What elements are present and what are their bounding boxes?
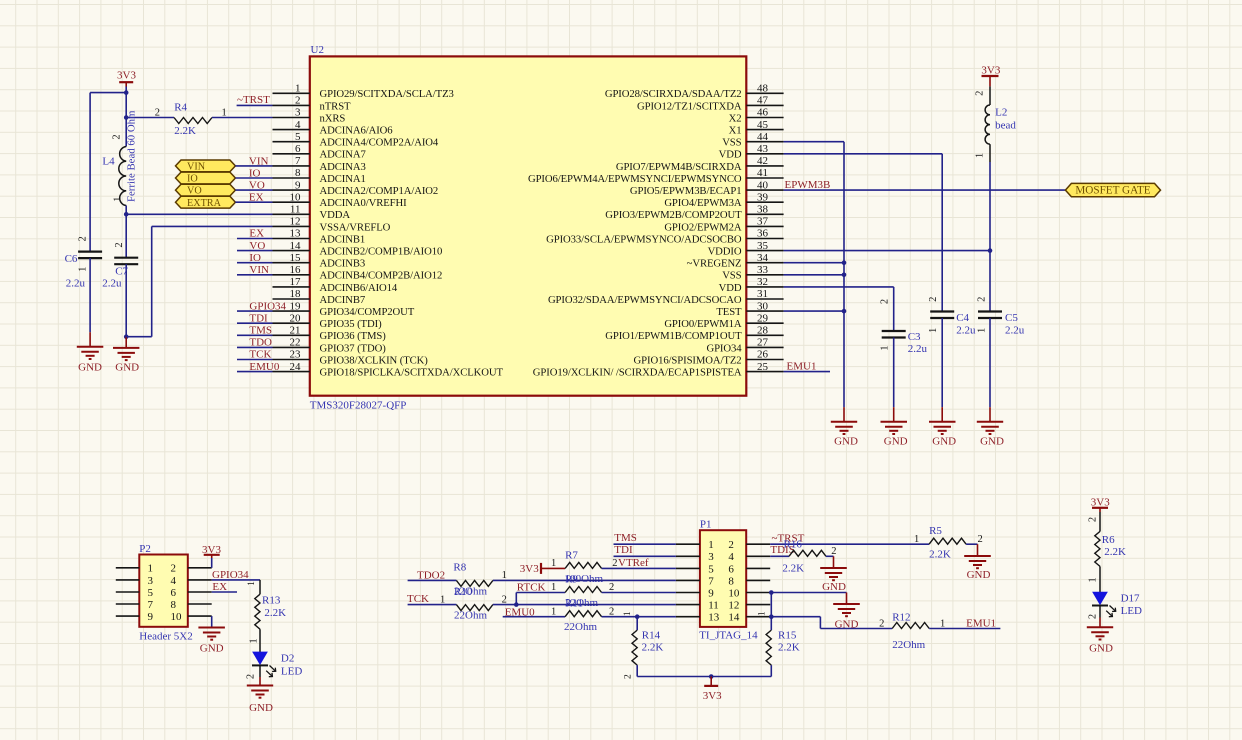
svg-text:1: 1 [551, 558, 556, 569]
svg-text:13: 13 [708, 612, 720, 624]
svg-text:2.2K: 2.2K [642, 642, 664, 654]
svg-text:bead: bead [995, 120, 1016, 132]
svg-text:ADCINB4/COMP2B/AIO12: ADCINB4/COMP2B/AIO12 [320, 270, 443, 282]
svg-text:43: 43 [757, 143, 769, 155]
svg-text:GPIO2/EPWM2A: GPIO2/EPWM2A [664, 221, 742, 233]
svg-text:13: 13 [290, 228, 302, 240]
svg-text:2: 2 [928, 297, 939, 302]
svg-text:10: 10 [728, 587, 740, 599]
svg-text:VIN: VIN [187, 162, 206, 173]
svg-text:15: 15 [290, 252, 302, 264]
svg-text:GND: GND [834, 436, 858, 448]
svg-text:1: 1 [914, 534, 919, 545]
svg-text:GND: GND [1089, 643, 1113, 655]
svg-text:EMU1: EMU1 [787, 361, 817, 373]
svg-text:GPIO1/EPWM1B/COMP1OUT: GPIO1/EPWM1B/COMP1OUT [605, 330, 742, 342]
svg-text:3V3: 3V3 [117, 70, 136, 82]
svg-text:39: 39 [757, 191, 769, 203]
svg-text:2: 2 [155, 107, 160, 118]
svg-text:X1: X1 [729, 125, 742, 137]
svg-text:GND: GND [932, 436, 956, 448]
svg-text:GPIO7/EPWM4B/SCIRXDA: GPIO7/EPWM4B/SCIRXDA [616, 161, 742, 173]
svg-text:GPIO18/SPICLKA/SCITXDA/XCLKOUT: GPIO18/SPICLKA/SCITXDA/XCLKOUT [320, 367, 504, 379]
svg-text:GPIO34: GPIO34 [706, 342, 742, 354]
svg-text:~TRST: ~TRST [237, 94, 270, 106]
svg-text:18: 18 [290, 288, 302, 300]
svg-text:TMS: TMS [614, 532, 637, 544]
svg-text:1: 1 [757, 611, 767, 616]
svg-text:R11: R11 [565, 597, 583, 609]
svg-text:ADCINB2/COMP1B/AIO10: ADCINB2/COMP1B/AIO10 [320, 246, 443, 258]
svg-text:VIN: VIN [249, 155, 269, 167]
svg-text:TI_JTAG_14: TI_JTAG_14 [699, 630, 758, 642]
svg-text:1: 1 [976, 328, 987, 333]
svg-text:MOSFET GATE: MOSFET GATE [1075, 185, 1150, 197]
svg-text:R9: R9 [565, 573, 578, 585]
svg-text:3V3: 3V3 [202, 544, 221, 556]
svg-text:46: 46 [757, 107, 769, 119]
svg-text:1: 1 [1088, 577, 1099, 582]
svg-text:12: 12 [728, 600, 739, 612]
svg-text:22Ohm: 22Ohm [564, 621, 597, 633]
svg-text:3V3: 3V3 [981, 65, 1000, 77]
svg-text:ADCINB3: ADCINB3 [320, 258, 366, 270]
svg-text:GPIO33/SCLA/EPWMSYNCO/ADCSOCBO: GPIO33/SCLA/EPWMSYNCO/ADCSOCBO [546, 233, 742, 245]
svg-text:D2: D2 [281, 653, 294, 665]
svg-text:2: 2 [609, 606, 614, 617]
svg-text:GPIO36 (TMS): GPIO36 (TMS) [320, 330, 387, 342]
svg-text:35: 35 [757, 240, 769, 252]
svg-text:ADCINA4/COMP2A/AIO4: ADCINA4/COMP2A/AIO4 [320, 137, 439, 149]
svg-text:R10: R10 [454, 586, 473, 598]
svg-text:1: 1 [928, 328, 939, 333]
svg-text:LED: LED [1121, 605, 1142, 617]
svg-text:8: 8 [728, 575, 734, 587]
svg-text:GPIO12/TZ1/SCITXDA: GPIO12/TZ1/SCITXDA [637, 100, 742, 112]
svg-text:ADCINA2/COMP1A/AIO2: ADCINA2/COMP1A/AIO2 [320, 185, 439, 197]
svg-text:TMS320F28027-QFP: TMS320F28027-QFP [310, 400, 407, 412]
svg-text:GPIO34: GPIO34 [212, 569, 249, 581]
svg-text:ADCINB7: ADCINB7 [320, 294, 366, 306]
svg-text:8: 8 [171, 599, 177, 611]
svg-text:1: 1 [551, 606, 556, 617]
svg-text:1: 1 [708, 539, 714, 551]
svg-text:29: 29 [757, 312, 769, 324]
svg-text:GND: GND [78, 362, 102, 374]
svg-text:C6: C6 [65, 253, 78, 265]
svg-text:4: 4 [295, 119, 301, 131]
svg-text:24: 24 [290, 361, 302, 373]
svg-text:nXRS: nXRS [320, 112, 346, 124]
svg-text:2: 2 [114, 242, 125, 247]
svg-text:19: 19 [290, 300, 302, 312]
svg-text:2.2K: 2.2K [174, 125, 196, 137]
svg-text:1: 1 [112, 197, 123, 202]
svg-text:2: 2 [976, 297, 987, 302]
svg-text:GND: GND [115, 362, 139, 374]
svg-text:GPIO5/EPWM3B/ECAP1: GPIO5/EPWM3B/ECAP1 [630, 185, 742, 197]
svg-text:36: 36 [757, 228, 769, 240]
svg-text:9: 9 [148, 611, 154, 623]
svg-text:1: 1 [77, 267, 88, 272]
svg-text:1: 1 [940, 619, 945, 630]
svg-text:38: 38 [757, 204, 769, 216]
svg-text:2.2u: 2.2u [66, 278, 86, 290]
svg-text:21: 21 [290, 325, 301, 337]
svg-text:GND: GND [980, 436, 1004, 448]
svg-text:GPIO35 (TDI): GPIO35 (TDI) [320, 318, 383, 330]
svg-text:2: 2 [112, 134, 123, 139]
svg-text:2: 2 [831, 546, 836, 557]
svg-text:GPIO29/SCITXDA/SCLA/TZ3: GPIO29/SCITXDA/SCLA/TZ3 [320, 88, 454, 100]
svg-text:11: 11 [708, 600, 719, 612]
svg-text:22: 22 [290, 337, 301, 349]
svg-text:nTRST: nTRST [320, 100, 352, 112]
svg-text:Header 5X2: Header 5X2 [139, 631, 192, 643]
svg-text:33: 33 [757, 264, 769, 276]
svg-text:GPIO16/SPISIMOA/TZ2: GPIO16/SPISIMOA/TZ2 [634, 354, 742, 366]
svg-text:C4: C4 [956, 312, 969, 324]
svg-text:2: 2 [975, 91, 986, 96]
svg-text:2: 2 [624, 674, 634, 679]
svg-text:2.2u: 2.2u [1005, 325, 1025, 337]
svg-text:GPIO32/SDAA/EPWMSYNCI/ADCSOCAO: GPIO32/SDAA/EPWMSYNCI/ADCSOCAO [548, 294, 742, 306]
svg-text:VSSA/VREFLO: VSSA/VREFLO [320, 221, 391, 233]
svg-text:TCK: TCK [407, 593, 429, 605]
svg-text:EMU0: EMU0 [505, 606, 535, 618]
svg-text:ADCINB1: ADCINB1 [320, 233, 366, 245]
svg-text:EX: EX [249, 192, 264, 204]
svg-text:1: 1 [440, 594, 445, 605]
svg-text:10: 10 [171, 611, 183, 623]
svg-text:R13: R13 [262, 595, 281, 607]
svg-text:2.2K: 2.2K [782, 563, 804, 575]
svg-text:IO: IO [249, 167, 261, 179]
svg-text:5: 5 [295, 131, 301, 143]
svg-text:ADCINA6/AIO6: ADCINA6/AIO6 [320, 125, 394, 137]
svg-text:27: 27 [757, 337, 769, 349]
svg-text:EMU0: EMU0 [249, 361, 279, 373]
svg-text:14: 14 [728, 612, 740, 624]
svg-text:25: 25 [757, 361, 769, 373]
svg-text:3: 3 [708, 551, 714, 563]
svg-text:R15: R15 [778, 629, 797, 641]
svg-text:48: 48 [757, 83, 769, 95]
svg-text:VDDIO: VDDIO [708, 246, 742, 258]
svg-text:GND: GND [967, 569, 991, 581]
svg-text:EMU1: EMU1 [966, 617, 996, 629]
svg-text:2.2K: 2.2K [1104, 546, 1126, 558]
svg-text:C7: C7 [115, 266, 128, 278]
svg-text:2.2K: 2.2K [778, 642, 800, 654]
svg-text:VO: VO [249, 180, 265, 192]
svg-text:3V3: 3V3 [520, 563, 539, 575]
svg-text:5: 5 [148, 587, 154, 599]
svg-text:1: 1 [880, 345, 891, 350]
svg-text:47: 47 [757, 95, 769, 107]
svg-text:10: 10 [290, 191, 302, 203]
svg-text:1: 1 [222, 107, 227, 118]
svg-text:R4: R4 [174, 102, 187, 114]
svg-text:9: 9 [708, 587, 714, 599]
svg-text:1: 1 [975, 153, 986, 158]
svg-text:RTCK: RTCK [517, 581, 546, 593]
svg-text:42: 42 [757, 155, 768, 167]
svg-text:2.2K: 2.2K [264, 607, 286, 619]
svg-text:6: 6 [728, 563, 734, 575]
svg-text:~VREGENZ: ~VREGENZ [687, 258, 742, 270]
svg-text:45: 45 [757, 119, 769, 131]
svg-text:1: 1 [551, 582, 556, 593]
svg-text:GPIO37 (TDO): GPIO37 (TDO) [320, 342, 387, 354]
svg-text:VDD: VDD [719, 149, 742, 161]
svg-text:GPIO19/XCLKIN/ /SCIRXDA/ECAP1S: GPIO19/XCLKIN/ /SCIRXDA/ECAP1SPISTEA [533, 367, 742, 379]
svg-text:ADCINA3: ADCINA3 [320, 161, 366, 173]
svg-text:6: 6 [171, 587, 177, 599]
svg-text:R7: R7 [565, 549, 578, 561]
svg-text:28: 28 [757, 325, 769, 337]
svg-text:11: 11 [290, 204, 301, 216]
svg-text:P1: P1 [700, 519, 712, 531]
svg-text:4: 4 [171, 575, 177, 587]
svg-text:2: 2 [880, 299, 891, 304]
svg-text:TCK: TCK [249, 349, 271, 361]
svg-text:VDDA: VDDA [320, 209, 351, 221]
svg-text:ADCINA7: ADCINA7 [320, 149, 367, 161]
svg-text:26: 26 [757, 349, 769, 361]
svg-text:23: 23 [290, 349, 302, 361]
svg-text:1: 1 [623, 611, 633, 616]
svg-text:7: 7 [148, 599, 154, 611]
svg-text:6: 6 [295, 143, 301, 155]
svg-text:IO: IO [187, 174, 198, 185]
svg-text:GPIO0/EPWM1A: GPIO0/EPWM1A [664, 318, 742, 330]
svg-text:D17: D17 [1121, 593, 1140, 605]
svg-text:2: 2 [246, 674, 257, 679]
svg-text:34: 34 [757, 252, 769, 264]
svg-text:14: 14 [290, 240, 302, 252]
svg-text:7: 7 [295, 155, 301, 167]
svg-text:TDO2: TDO2 [417, 569, 445, 581]
svg-text:L4: L4 [102, 156, 115, 168]
svg-text:2: 2 [171, 563, 177, 575]
svg-text:12: 12 [290, 216, 301, 228]
svg-text:GPIO28/SCIRXDA/SDAA/TZ2: GPIO28/SCIRXDA/SDAA/TZ2 [605, 88, 742, 100]
svg-text:2: 2 [1088, 614, 1099, 619]
svg-text:GPIO6/EPWM4A/EPWMSYNCI/EPWMSYN: GPIO6/EPWM4A/EPWMSYNCI/EPWMSYNCO [528, 173, 742, 185]
svg-text:EXTRA: EXTRA [187, 198, 222, 209]
svg-text:20: 20 [290, 312, 302, 324]
svg-text:8: 8 [295, 167, 301, 179]
svg-text:3V3: 3V3 [703, 690, 722, 702]
svg-text:1: 1 [502, 570, 507, 581]
svg-text:U2: U2 [311, 44, 324, 56]
svg-text:2: 2 [502, 594, 507, 605]
svg-text:44: 44 [757, 131, 769, 143]
svg-text:2: 2 [879, 619, 884, 630]
svg-text:GND: GND [200, 643, 224, 655]
svg-text:3: 3 [295, 107, 301, 119]
svg-text:VIN: VIN [249, 264, 269, 276]
svg-text:P2: P2 [139, 543, 151, 555]
svg-text:X2: X2 [729, 112, 742, 124]
svg-text:GPIO4/EPWM3A: GPIO4/EPWM3A [664, 197, 742, 209]
svg-text:2: 2 [295, 95, 301, 107]
svg-text:VDD: VDD [719, 282, 742, 294]
svg-text:17: 17 [290, 276, 302, 288]
svg-text:L2: L2 [995, 107, 1007, 119]
svg-text:1: 1 [148, 563, 154, 575]
svg-text:C5: C5 [1005, 312, 1018, 324]
svg-text:GPIO3/EPWM2B/COMP2OUT: GPIO3/EPWM2B/COMP2OUT [605, 209, 742, 221]
svg-text:LED: LED [281, 666, 302, 678]
svg-text:9: 9 [295, 179, 301, 191]
svg-text:R12: R12 [892, 612, 910, 624]
svg-text:31: 31 [757, 288, 768, 300]
svg-text:R8: R8 [453, 562, 466, 574]
svg-text:5: 5 [708, 563, 714, 575]
svg-text:1: 1 [295, 83, 301, 95]
svg-text:VTRef: VTRef [618, 557, 649, 569]
svg-text:2: 2 [978, 534, 983, 545]
svg-text:37: 37 [757, 216, 769, 228]
svg-text:C3: C3 [908, 331, 921, 343]
svg-text:EX: EX [249, 228, 264, 240]
svg-text:2: 2 [609, 582, 614, 593]
svg-text:4: 4 [728, 551, 734, 563]
svg-text:Ferrite Bead 60 Ohm: Ferrite Bead 60 Ohm [126, 110, 138, 202]
svg-text:2.2K: 2.2K [929, 549, 951, 561]
svg-text:2.2u: 2.2u [102, 278, 122, 290]
svg-text:2: 2 [77, 236, 88, 241]
svg-text:TMS: TMS [249, 325, 272, 337]
svg-text:2: 2 [1088, 517, 1099, 522]
svg-text:VSS: VSS [722, 270, 741, 282]
svg-text:TDO: TDO [249, 337, 272, 349]
svg-text:GPIO34/COMP2OUT: GPIO34/COMP2OUT [320, 306, 415, 318]
svg-text:VO: VO [249, 240, 265, 252]
svg-text:ADCINB6/AIO14: ADCINB6/AIO14 [320, 282, 398, 294]
svg-text:2: 2 [612, 558, 617, 569]
svg-text:GND: GND [249, 702, 273, 714]
svg-text:GPIO38/XCLKIN (TCK): GPIO38/XCLKIN (TCK) [320, 354, 429, 366]
svg-text:ADCINA1: ADCINA1 [320, 173, 366, 185]
svg-text:R16: R16 [784, 539, 803, 551]
svg-text:41: 41 [757, 167, 768, 179]
svg-text:3: 3 [148, 575, 154, 587]
svg-text:ADCINA0/VREFHI: ADCINA0/VREFHI [320, 197, 408, 209]
svg-text:TDI: TDI [614, 544, 633, 556]
svg-text:EX: EX [212, 581, 227, 593]
svg-text:VO: VO [187, 186, 202, 197]
svg-text:GPIO34: GPIO34 [249, 300, 286, 312]
svg-text:GND: GND [884, 436, 908, 448]
svg-text:2.2u: 2.2u [956, 325, 976, 337]
svg-text:TDI: TDI [249, 312, 268, 324]
svg-text:R5: R5 [929, 525, 942, 537]
svg-text:1: 1 [249, 638, 260, 643]
svg-text:VSS: VSS [722, 137, 741, 149]
svg-text:32: 32 [757, 276, 768, 288]
svg-text:2: 2 [728, 539, 734, 551]
svg-text:EPWM3B: EPWM3B [785, 179, 831, 191]
svg-text:GND: GND [822, 581, 846, 593]
svg-text:30: 30 [757, 300, 769, 312]
svg-text:IO: IO [249, 252, 261, 264]
svg-text:16: 16 [290, 264, 302, 276]
svg-text:1: 1 [247, 581, 257, 586]
svg-text:TEST: TEST [716, 306, 742, 318]
svg-text:22Ohm: 22Ohm [454, 610, 487, 622]
svg-text:R6: R6 [1102, 534, 1115, 546]
svg-text:R14: R14 [642, 629, 661, 641]
svg-text:7: 7 [708, 575, 714, 587]
svg-text:2.2u: 2.2u [908, 343, 928, 355]
svg-text:40: 40 [757, 179, 769, 191]
svg-text:22Ohm: 22Ohm [892, 639, 925, 651]
